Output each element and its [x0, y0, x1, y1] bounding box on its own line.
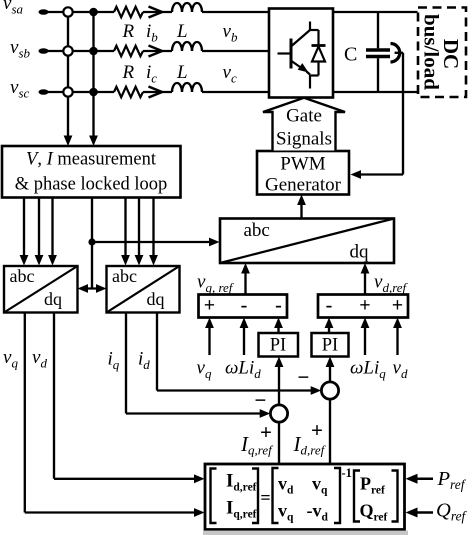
svg-text:-: - [275, 295, 282, 317]
svg-text:-: - [326, 295, 333, 317]
svg-text:dq: dq [350, 242, 370, 263]
svg-text:+: + [204, 295, 215, 317]
svg-text:-: - [241, 295, 248, 317]
svg-text:L: L [176, 21, 188, 42]
svg-text:PWM: PWM [280, 154, 326, 175]
svg-text:PI: PI [322, 336, 338, 356]
svg-text:L: L [176, 62, 188, 83]
svg-text:Gate: Gate [286, 106, 322, 127]
svg-text:abc: abc [10, 266, 35, 286]
svg-text:=: = [260, 488, 270, 508]
svg-text:+: + [260, 420, 272, 444]
svg-text:+: + [359, 295, 370, 317]
svg-text:Generator: Generator [265, 175, 342, 196]
svg-text:PI: PI [270, 336, 286, 356]
svg-text:−: − [298, 365, 310, 389]
svg-text:C: C [344, 44, 357, 66]
svg-text:dq: dq [44, 289, 62, 309]
svg-text:abc: abc [244, 220, 270, 241]
svg-text:bus/load: bus/load [420, 14, 444, 90]
svg-text:R: R [122, 21, 135, 42]
svg-text:dq: dq [147, 289, 165, 309]
svg-text:Signals: Signals [276, 129, 332, 150]
svg-text:R: R [122, 62, 135, 83]
svg-text:-1: -1 [342, 466, 352, 480]
svg-text:& phase locked loop: & phase locked loop [15, 175, 168, 195]
svg-text:abc: abc [112, 266, 137, 286]
svg-text:−: − [255, 388, 267, 412]
svg-text:+: + [311, 418, 323, 442]
svg-text:V, I measurement: V, I measurement [26, 150, 157, 170]
svg-text:+: + [392, 295, 403, 317]
